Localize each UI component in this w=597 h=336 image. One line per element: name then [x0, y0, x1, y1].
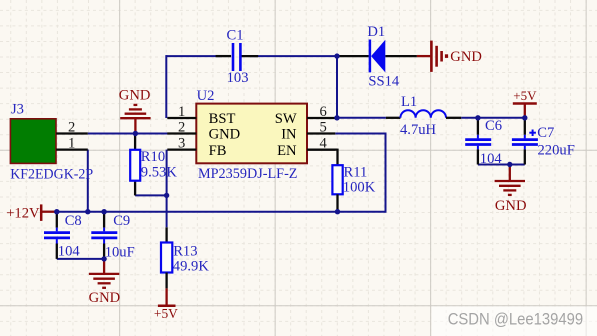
wire: FB vertical (pin3 down past rail to R13): [166, 150, 168, 228]
wire: IN net vertical down to rail: [385, 133, 387, 213]
svg-text:C8: C8: [65, 213, 82, 229]
diode D1 anode-side pin: [385, 55, 417, 57]
ground bars (rotated power ground): [431, 41, 441, 72]
junction C7/+5V output: [522, 115, 527, 120]
svg-text:BST: BST: [209, 111, 236, 127]
svg-text:2: 2: [68, 120, 75, 136]
svg-text:EN: EN: [277, 143, 297, 159]
svg-text:KF2EDGK-2P: KF2EDGK-2P: [10, 167, 93, 183]
capacitor C9 plates: [91, 233, 117, 238]
junction +12V/C8: [54, 209, 59, 214]
capacitor C9 bottom pin: [103, 239, 105, 243]
+5V bar: [158, 304, 176, 307]
junction FB/R10: [164, 193, 169, 198]
capacitor C9 top pin: [103, 212, 105, 228]
junction C8/C9 bottom ground: [101, 256, 106, 261]
resistor R13 top pin: [165, 227, 167, 242]
svg-text:FB: FB: [209, 143, 227, 159]
U2 pin 4 (right): [307, 148, 335, 150]
svg-text:GND: GND: [119, 88, 151, 104]
svg-text:3: 3: [178, 136, 185, 152]
capacitor C6 top pin: [477, 118, 479, 135]
svg-text:103: 103: [227, 70, 249, 86]
ground power port at D1 anode: stem: [417, 55, 431, 57]
capacitor C6 bottom pin: [477, 146, 479, 150]
capacitor C8 bottom pin: [56, 239, 58, 243]
resistor R10 bottom pin: [134, 181, 136, 196]
resistor R11 bottom pin: [336, 194, 338, 211]
U2 pin 2 (left): [167, 132, 196, 134]
watermark background strip: [432, 306, 597, 336]
svg-text:C9: C9: [113, 213, 130, 229]
wire: L1 to C6/C7 output: [461, 117, 525, 119]
svg-text:GND: GND: [450, 49, 482, 65]
junction SW node: [334, 115, 339, 120]
svg-text:R10: R10: [141, 149, 165, 165]
junction J3 pin1 on rail: [85, 209, 90, 214]
wire: output bottom C6-C7: [478, 164, 525, 166]
ground power port below C6/C7: stem: [509, 165, 511, 182]
diode D1 cathode-side pin: [338, 55, 369, 57]
+12V stem: [42, 211, 56, 213]
U2 pin 4 route to R11: [307, 148, 338, 150]
svg-text:4.7uH: 4.7uH: [400, 122, 437, 138]
ground power port below C8/C9: stem: [103, 259, 105, 274]
svg-text:1: 1: [68, 136, 75, 152]
svg-text:+5V: +5V: [513, 88, 537, 103]
inductor L1 right pin: [446, 117, 461, 119]
+5V power port (output): stem: [524, 105, 526, 118]
wire: top net C1 right to D1 cathode: [250, 55, 340, 57]
wire: SW pin6 to L1: [335, 117, 386, 119]
svg-text:5: 5: [320, 120, 327, 136]
ground symbol below C6/C7: [495, 181, 525, 195]
svg-text:MP2359DJ-LF-Z: MP2359DJ-LF-Z: [198, 166, 298, 182]
svg-text:6: 6: [320, 104, 327, 120]
wire: J3 pin1 vertical down to +12V rail: [87, 150, 89, 212]
wire: R10 bottom to FB vertical: [135, 194, 167, 196]
resistor R10 top pin: [134, 134, 136, 150]
svg-text:100K: 100K: [343, 179, 376, 195]
wire: C8-C9 bottom: [57, 258, 104, 260]
svg-text:CSDN @Lee139499: CSDN @Lee139499: [448, 310, 584, 329]
svg-text:L1: L1: [401, 94, 417, 110]
U2 pin 1 (left): [167, 117, 196, 119]
U2 pin 5 (right): [307, 132, 335, 134]
svg-text:U2: U2: [197, 88, 215, 104]
wire: IN pin5 horizontal: [335, 133, 385, 135]
svg-text:10uF: 10uF: [105, 244, 135, 260]
svg-text:2: 2: [178, 120, 185, 136]
wire: top BST/boost net horizontal left of C1: [166, 55, 222, 57]
svg-text:+12V: +12V: [6, 206, 40, 222]
svg-text:C1: C1: [227, 28, 244, 44]
inverted ground bars: [120, 105, 150, 118]
junction top net to SW drop: [334, 53, 339, 58]
svg-text:GND: GND: [495, 198, 527, 214]
wire: +12V rail horizontal: [54, 211, 386, 213]
svg-text:9.53K: 9.53K: [141, 164, 178, 180]
svg-text:+5V: +5V: [154, 306, 178, 321]
op-amp/regulator U2 MP2359DJ-LF-Z body: [196, 104, 307, 164]
wire: vertical from top net down to SW node: [336, 55, 338, 118]
junction C6 output: [475, 115, 480, 120]
ground power port above pin2 wire: stem: [134, 118, 136, 133]
svg-text:GND: GND: [209, 127, 241, 143]
C7 polarity plus sign: [529, 130, 536, 137]
resistor R13 body: [161, 243, 172, 273]
capacitor C1 pins: [216, 55, 232, 57]
junction C9 on rail: [101, 209, 106, 214]
svg-text:SS14: SS14: [368, 73, 400, 89]
+5V bar: [513, 102, 537, 105]
svg-text:R11: R11: [344, 165, 368, 181]
connector J3 KF2EDGK-2P body: [10, 119, 56, 164]
U2 pin 3 (left): [167, 148, 196, 150]
svg-text:J3: J3: [11, 101, 24, 117]
svg-text:D1: D1: [367, 24, 385, 40]
wire: J3 pin2 to U2 GND pin net: [88, 133, 168, 135]
J3 pin 1: [56, 148, 88, 150]
svg-text:49.9K: 49.9K: [173, 259, 210, 275]
svg-text:104: 104: [480, 151, 503, 167]
resistor R11 body: [332, 165, 342, 194]
capacitor C1 plates: [233, 43, 240, 71]
capacitor C6 plates: [465, 140, 491, 145]
svg-text:C6: C6: [485, 118, 502, 134]
svg-text:R13: R13: [173, 243, 197, 259]
+5V power port below R13: stem: [165, 288, 167, 305]
svg-text:104: 104: [58, 243, 81, 259]
diode D1 triangle: [371, 40, 385, 73]
+12V power port bar: [40, 204, 43, 221]
svg-text:IN: IN: [281, 127, 297, 143]
ground symbol below C9: [89, 274, 119, 288]
svg-text:C7: C7: [537, 125, 554, 141]
inductor L1 left pin: [386, 117, 401, 119]
svg-text:GND: GND: [89, 290, 121, 306]
capacitor C7 plates: [512, 140, 538, 145]
J3 pin 2: [56, 132, 88, 134]
capacitor C8 top pin: [56, 212, 58, 228]
junction GND net at pin2 wire: [133, 131, 138, 136]
junction R11 on rail: [335, 209, 340, 214]
resistor R10 body: [130, 150, 140, 181]
resistor R13 bottom pin: [165, 273, 167, 289]
junction output ground node: [507, 162, 512, 167]
svg-text:1: 1: [178, 104, 185, 120]
svg-text:220uF: 220uF: [538, 143, 575, 159]
svg-text:SW: SW: [275, 111, 297, 127]
capacitor C8 plates: [44, 233, 70, 238]
U2 pin 6 (right): [307, 117, 335, 119]
capacitor C7 bottom pin: [524, 146, 526, 150]
diode D1 cathode bar: [369, 40, 372, 73]
capacitor C7 top pin: [524, 118, 526, 135]
inductor L1 coil: [400, 110, 446, 118]
wire: vertical from top net down to BST pin 1: [165, 55, 167, 118]
